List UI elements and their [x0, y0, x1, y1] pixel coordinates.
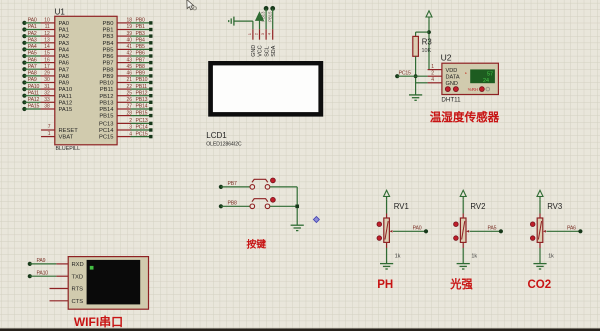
svg-text:VCC: VCC — [258, 45, 264, 56]
svg-text:26: 26 — [126, 97, 132, 103]
node PA0 terminal — [413, 226, 429, 234]
WIFI module screen — [87, 260, 141, 305]
svg-text:PA6: PA6 — [567, 226, 576, 232]
node PB10 (U1 pin 21) — [99, 77, 152, 86]
DHT11 %RH + button — [468, 87, 490, 92]
svg-text:38: 38 — [44, 104, 50, 110]
svg-text:PH: PH — [377, 279, 393, 291]
svg-text:LCD1: LCD1 — [206, 131, 227, 140]
svg-text:PA6: PA6 — [28, 57, 37, 63]
node PC15 (U1 pin 4) — [99, 131, 153, 140]
node PA10 (U1 pin 31) — [22, 84, 72, 93]
ground symbol (RV1) — [380, 264, 393, 269]
svg-text:PC15: PC15 — [136, 131, 148, 137]
ground symbol (left of OLED, rotated) — [229, 17, 234, 26]
svg-text:4: 4 — [431, 77, 434, 83]
svg-text:PA1: PA1 — [28, 24, 37, 30]
svg-text:40: 40 — [126, 38, 132, 44]
svg-text:PB13: PB13 — [99, 100, 113, 106]
svg-text:PA10: PA10 — [59, 87, 73, 93]
node PA4 (U1 pin 14) — [22, 44, 70, 53]
svg-text:PA12: PA12 — [28, 97, 40, 103]
svg-text:PB8: PB8 — [103, 67, 114, 73]
svg-text:33: 33 — [44, 97, 50, 103]
svg-text:2: 2 — [129, 118, 132, 124]
power arrow (OLED VCC) — [256, 12, 264, 20]
bottom window edge strip — [0, 328, 600, 331]
svg-text:PB9: PB9 — [103, 74, 114, 80]
U2 DHT11 pin stubs — [428, 64, 442, 83]
svg-text:PA0: PA0 — [28, 18, 37, 24]
svg-text:10: 10 — [44, 18, 50, 24]
svg-text:2: 2 — [431, 71, 434, 77]
svg-text:RV2: RV2 — [470, 202, 485, 211]
svg-text:PA8: PA8 — [59, 74, 70, 80]
OLED pin names GND VCC SCL SDA (rotated) — [251, 45, 277, 57]
svg-text:21: 21 — [126, 77, 132, 83]
ground symbol (RV2) — [457, 264, 470, 269]
svg-text:PB14: PB14 — [99, 107, 114, 113]
svg-text:PA6: PA6 — [59, 61, 70, 67]
svg-text:PB12: PB12 — [99, 94, 113, 100]
U1 pin 7 RESET stub — [41, 124, 78, 134]
svg-text:RV1: RV1 — [394, 202, 409, 211]
svg-text:PA11: PA11 — [28, 90, 39, 96]
svg-text:PA11: PA11 — [59, 94, 72, 100]
ground symbol (RV3) — [533, 264, 546, 269]
svg-text:GND: GND — [251, 45, 257, 57]
display LCD1 OLED12864I2C — [208, 61, 323, 117]
svg-text:PA0: PA0 — [59, 21, 70, 27]
node PC14 (U1 pin 3) — [99, 125, 153, 134]
svg-text:PA1: PA1 — [59, 28, 70, 34]
wire common vertical — [296, 187, 298, 225]
svg-text:1k: 1k — [548, 253, 554, 259]
svg-text:PA9: PA9 — [59, 81, 70, 87]
node PA6 terminal — [567, 226, 583, 234]
svg-text:OLED12864I2C: OLED12864I2C — [206, 142, 241, 148]
svg-text:PB3: PB3 — [136, 31, 145, 37]
svg-text:▸: ▸ — [465, 71, 467, 75]
svg-text:PA2: PA2 — [59, 34, 70, 40]
svg-text:11: 11 — [45, 24, 50, 30]
svg-text:PB8: PB8 — [228, 200, 237, 206]
wire PA10 to TXD — [30, 275, 57, 277]
svg-text:PB15: PB15 — [136, 110, 148, 116]
power arrow (RV1) — [384, 190, 390, 196]
junction dot — [295, 205, 299, 209]
power arrow (RV2) — [460, 190, 466, 196]
node PA5 terminal — [488, 226, 504, 234]
svg-text:PB11: PB11 — [136, 84, 148, 90]
wire VCC — [259, 19, 261, 29]
ground symbol (DHT11) — [409, 95, 422, 100]
svg-text:41: 41 — [126, 44, 132, 50]
svg-text:PB11: PB11 — [100, 87, 114, 93]
svg-text:13: 13 — [44, 38, 50, 44]
svg-text:PA4: PA4 — [28, 44, 37, 50]
svg-text:GND: GND — [446, 81, 458, 87]
node PA6 (U1 pin 16) — [22, 57, 69, 66]
svg-text:PB6: PB6 — [103, 54, 114, 60]
svg-text:29: 29 — [44, 71, 50, 77]
svg-text:R3: R3 — [422, 37, 432, 46]
svg-text:PA4: PA4 — [59, 48, 70, 54]
DHT11 green LCD readout — [465, 69, 495, 84]
wire SDA — [272, 9, 274, 30]
svg-text:25: 25 — [126, 90, 132, 96]
wire wiper to PA5 — [470, 230, 501, 232]
svg-text:1k: 1k — [395, 253, 401, 259]
svg-text:15: 15 — [44, 51, 50, 57]
svg-text:WIFI串口: WIFI串口 — [74, 314, 123, 329]
wire button to common — [270, 186, 297, 188]
svg-text:PB7: PB7 — [228, 181, 237, 187]
svg-text:RXD: RXD — [72, 262, 84, 268]
svg-text:RESET: RESET — [59, 128, 79, 134]
node PA9 terminal — [28, 258, 46, 266]
svg-text:12: 12 — [44, 31, 50, 37]
svg-text:温湿度传感器: 温湿度传感器 — [430, 110, 500, 124]
node PB7 terminal — [219, 181, 237, 189]
svg-text:PC14: PC14 — [99, 128, 114, 134]
node PB3 (U1 pin 39) — [103, 31, 153, 40]
node PB7 (U1 pin 43) — [103, 57, 153, 66]
push button 2 (PB8) — [250, 197, 275, 208]
junction dot — [427, 30, 431, 34]
mouse cursor — [187, 0, 197, 10]
svg-text:RTS: RTS — [72, 287, 84, 293]
svg-text:PB12: PB12 — [136, 90, 148, 96]
node PA9 (U1 pin 30) — [22, 77, 69, 86]
node PB12 (U1 pin 25) — [99, 90, 152, 99]
svg-text:PA12: PA12 — [59, 100, 73, 106]
wire SCL — [265, 9, 267, 30]
node PA2 (U1 pin 12) — [22, 31, 69, 40]
svg-text:16: 16 — [44, 57, 50, 63]
node PA0 (U1 pin 10) — [22, 18, 69, 27]
microcontroller U1 BLUEPILL body — [55, 16, 117, 145]
svg-text:PA7: PA7 — [28, 64, 37, 70]
node PB6 (U1 pin 42) — [103, 51, 153, 60]
junction dot R3/PC15/DATA — [414, 74, 418, 78]
svg-text:28: 28 — [126, 110, 132, 116]
power arrow (DHT11 VDD) — [426, 11, 432, 17]
node PC15 terminal — [395, 74, 399, 78]
svg-text:7: 7 — [48, 124, 51, 130]
potentiometer RV2 — [454, 202, 486, 259]
svg-text:PB7: PB7 — [103, 61, 114, 67]
svg-text:PA10: PA10 — [37, 270, 49, 276]
svg-text:PB14: PB14 — [136, 104, 148, 110]
svg-text:PA9: PA9 — [37, 258, 46, 264]
node PA8 (U1 pin 29) — [22, 71, 69, 80]
wire VDD vertical — [428, 20, 430, 70]
svg-text:PB6: PB6 — [136, 51, 145, 57]
node PB8 terminal — [219, 200, 237, 208]
svg-text:PA2: PA2 — [28, 31, 37, 37]
node PB9 (U1 pin 46) — [103, 71, 153, 80]
wire PB8 to button — [221, 205, 250, 207]
potentiometer RV3 — [530, 202, 562, 259]
svg-text:DHT11: DHT11 — [441, 96, 461, 103]
svg-text:VBAT: VBAT — [59, 135, 74, 141]
svg-text:18: 18 — [126, 18, 132, 24]
marker blue diamond — [313, 217, 319, 223]
wire RV2 top — [462, 199, 464, 213]
svg-text:PB10: PB10 — [136, 77, 148, 83]
node PB15 terminal dot (OLED SDA) — [270, 6, 275, 11]
node PB0 (U1 pin 18) — [103, 18, 153, 27]
wire wiper to PA6 — [546, 230, 580, 232]
wire R3 bottom to ground — [415, 56, 417, 94]
svg-text:14: 14 — [44, 44, 50, 50]
OLED pin numbers 1 2 3 4 (rotated) — [247, 32, 272, 35]
wire RV3 top — [539, 199, 541, 213]
wire PB7 to button — [221, 186, 250, 188]
node PB15 (U1 pin 28) — [99, 110, 152, 119]
svg-text:30: 30 — [44, 77, 50, 83]
svg-text:31: 31 — [44, 84, 50, 90]
node PA7 (U1 pin 17) — [22, 64, 69, 73]
node PB11 (U1 pin 22) — [100, 84, 153, 93]
node PB8 (U1 pin 45) — [103, 64, 153, 73]
svg-text:PC15: PC15 — [99, 135, 114, 141]
node PB5 (U1 pin 41) — [103, 44, 153, 53]
RTS pin stub — [50, 288, 69, 290]
svg-text:PC14: PC14 — [136, 125, 148, 131]
wire PA9 to RXD — [30, 263, 57, 265]
DHT11 adjust buttons — [445, 87, 458, 92]
svg-text:45: 45 — [126, 64, 132, 70]
svg-text:46: 46 — [126, 71, 132, 77]
svg-text:PB1: PB1 — [103, 28, 114, 34]
svg-text:U1: U1 — [55, 8, 66, 17]
node PB1 (U1 pin 19) — [103, 24, 153, 33]
node PB13 (U1 pin 26) — [99, 97, 152, 106]
node PA10 terminal — [28, 270, 49, 278]
svg-text:SCL: SCL — [264, 46, 270, 57]
svg-text:PB0: PB0 — [136, 18, 145, 24]
svg-text:39: 39 — [126, 31, 132, 37]
U1 pin 1 VBAT stub — [41, 131, 74, 141]
wire RV2 bottom — [462, 242, 464, 248]
wire to R3 top — [416, 31, 429, 33]
svg-text:PA3: PA3 — [59, 41, 70, 47]
svg-text:PB4: PB4 — [136, 38, 145, 44]
svg-text:32: 32 — [44, 90, 50, 96]
svg-text:PA5: PA5 — [488, 226, 497, 232]
node PA5 (U1 pin 15) — [22, 51, 69, 60]
svg-text:PC15: PC15 — [399, 70, 411, 76]
wire RV3 bottom — [539, 242, 541, 248]
node PB13 terminal dot (OLED SCL) — [264, 6, 269, 11]
svg-text:PB15: PB15 — [99, 114, 113, 120]
svg-text:BLUEPILL: BLUEPILL — [56, 146, 81, 152]
svg-text:10K: 10K — [422, 48, 432, 54]
svg-text:DATA: DATA — [446, 74, 460, 80]
svg-text:CTS: CTS — [72, 299, 84, 305]
svg-text:PB10: PB10 — [99, 81, 113, 87]
svg-text:光强: 光强 — [449, 277, 473, 291]
svg-text:PC13: PC13 — [136, 118, 148, 124]
svg-text:PB3: PB3 — [103, 34, 114, 40]
node PA15 (U1 pin 38) — [22, 104, 72, 113]
svg-text:PA7: PA7 — [59, 67, 70, 73]
svg-text:PB5: PB5 — [136, 44, 145, 50]
svg-text:PA8: PA8 — [28, 71, 37, 77]
svg-text:PA5: PA5 — [59, 54, 70, 60]
module WIFI serial body — [68, 257, 148, 310]
svg-text:42: 42 — [126, 51, 132, 57]
sensor U2 DHT11 body — [441, 52, 499, 94]
wire RV1 bottom — [386, 242, 388, 248]
svg-text:U2: U2 — [441, 52, 452, 62]
svg-text:1: 1 — [431, 64, 434, 70]
svg-text:PB7: PB7 — [136, 57, 145, 63]
wire wiper to PA0 — [393, 230, 426, 232]
svg-text:1k: 1k — [471, 253, 477, 259]
node PB4 (U1 pin 40) — [103, 38, 153, 47]
wire button to common — [270, 205, 297, 207]
svg-text:22: 22 — [126, 84, 132, 90]
ground symbol (buttons) — [291, 225, 304, 230]
svg-text:27: 27 — [126, 104, 132, 110]
node PA1 (U1 pin 11) — [22, 24, 69, 33]
wire PC15 to DATA — [397, 75, 427, 77]
svg-text:TXD: TXD — [72, 274, 84, 280]
node PB14 (U1 pin 27) — [99, 104, 152, 113]
svg-text:17: 17 — [44, 64, 50, 70]
svg-text:RV3: RV3 — [547, 202, 562, 211]
CTS pin stub — [50, 300, 69, 302]
svg-text:PB15: PB15 — [267, 11, 272, 22]
svg-text:PC13: PC13 — [99, 122, 114, 128]
svg-text:PA9: PA9 — [28, 77, 37, 83]
svg-text:43: 43 — [126, 57, 132, 63]
node PC13 (U1 pin 2) — [99, 118, 153, 127]
push button 1 (PB7) — [250, 178, 275, 189]
svg-text:PA10: PA10 — [28, 84, 40, 90]
potentiometer RV1 — [377, 202, 409, 259]
svg-text:57: 57 — [487, 71, 493, 77]
svg-text:PB5: PB5 — [103, 48, 114, 54]
svg-text:按键: 按键 — [247, 237, 267, 250]
svg-text:PB1: PB1 — [136, 24, 145, 30]
svg-text:PB13: PB13 — [136, 97, 148, 103]
svg-text:%RH: %RH — [468, 87, 478, 92]
svg-text:CO2: CO2 — [528, 279, 552, 291]
svg-text:PA0: PA0 — [413, 226, 422, 232]
svg-text:3: 3 — [129, 125, 132, 131]
node PA3 (U1 pin 13) — [22, 38, 69, 47]
svg-text:24: 24 — [483, 78, 489, 84]
svg-text:1: 1 — [48, 131, 51, 137]
node PA12 (U1 pin 33) — [22, 97, 72, 106]
power arrow (RV3) — [537, 190, 543, 196]
svg-text:PB8: PB8 — [136, 64, 145, 70]
svg-text:PB9: PB9 — [136, 71, 145, 77]
svg-text:PA5: PA5 — [28, 51, 37, 57]
svg-text:19: 19 — [126, 24, 132, 30]
svg-text:VDD: VDD — [446, 68, 458, 74]
wire ground to OLED GND pin — [234, 20, 253, 22]
svg-text:PA3: PA3 — [28, 38, 37, 44]
svg-text:PA15: PA15 — [59, 107, 73, 113]
svg-text:PB0: PB0 — [103, 21, 114, 27]
OLED pin stubs 1-4 — [253, 29, 273, 39]
wire GND pin — [416, 82, 428, 84]
svg-text:SDA: SDA — [271, 45, 277, 56]
resistor R3 — [413, 36, 419, 56]
svg-text:PB4: PB4 — [103, 41, 115, 47]
node PA11 (U1 pin 32) — [22, 90, 72, 99]
wire RV1 top — [386, 199, 388, 213]
svg-text:4: 4 — [129, 131, 132, 137]
svg-text:PA15: PA15 — [28, 104, 40, 110]
